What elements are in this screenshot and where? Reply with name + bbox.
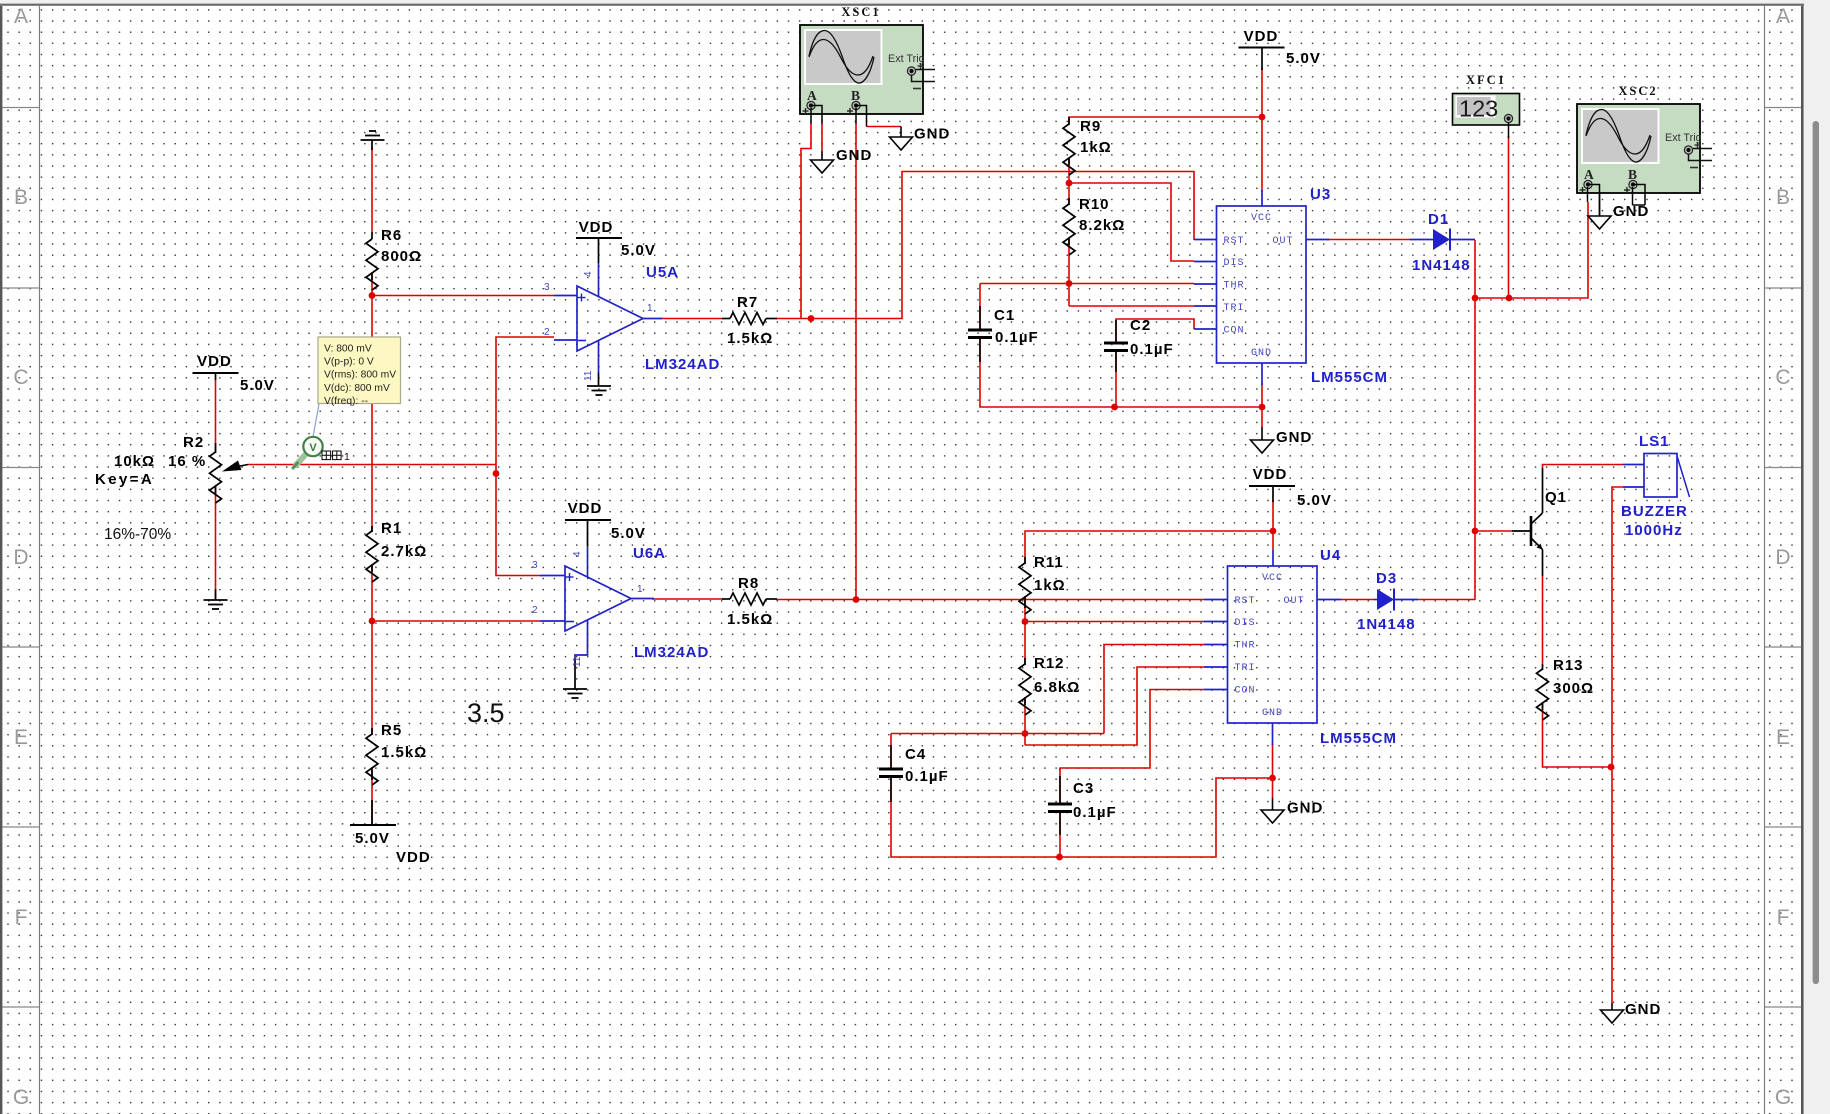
ground below U4 <box>1272 798 1274 810</box>
wire Q1 collector up to buzzer <box>1543 465 1624 469</box>
svg-text:V: 800 mV: V: 800 mV <box>324 344 372 355</box>
wire buzzer bottom terminal down to ground <box>1612 487 1623 1003</box>
svg-text:1N4148: 1N4148 <box>1357 616 1416 633</box>
svg-text:D: D <box>13 546 28 569</box>
resistor R12 <box>1024 658 1026 665</box>
svg-text:0.1µF: 0.1µF <box>1073 804 1117 821</box>
XSC2 terminal stubs <box>1587 187 1589 202</box>
wire node to Q1 base <box>1475 530 1512 532</box>
U3 pin stubs <box>1194 239 1217 241</box>
junction U3 GND node <box>1259 404 1266 411</box>
svg-text:B: B <box>1628 167 1637 182</box>
svg-text:V(dc): 800 mV: V(dc): 800 mV <box>324 383 390 394</box>
XFC1 terminal stub <box>1508 123 1510 138</box>
svg-text:U6A: U6A <box>633 545 666 562</box>
svg-text:R12: R12 <box>1034 655 1065 672</box>
op-amp U6A (LM324AD) <box>565 566 631 631</box>
svg-text:THR: THR <box>1224 281 1245 292</box>
capacitor C2 <box>1115 320 1117 343</box>
svg-text:16 %: 16 % <box>168 453 206 470</box>
wire C1 bottom to ground bus <box>980 337 1262 407</box>
svg-text:E: E <box>14 726 28 749</box>
svg-text:A: A <box>807 88 817 103</box>
power VDD above U4 <box>1249 485 1295 487</box>
svg-text:R9: R9 <box>1080 118 1101 135</box>
svg-text:2: 2 <box>544 327 550 338</box>
svg-text:GND: GND <box>1287 800 1323 817</box>
wire R12 bottom node <box>1024 697 1026 745</box>
svg-text:VDD: VDD <box>396 849 431 866</box>
potentiometer R2 <box>215 443 217 453</box>
svg-text:R8: R8 <box>738 575 759 592</box>
svg-text:16%-70%: 16%-70% <box>104 526 171 543</box>
probe leader line <box>313 404 319 437</box>
svg-text:R7: R7 <box>737 294 758 311</box>
svg-text:8.2kΩ: 8.2kΩ <box>1079 217 1125 234</box>
power VDD above R2 <box>193 372 239 374</box>
svg-text:R6: R6 <box>381 227 402 244</box>
svg-text:4: 4 <box>572 551 583 557</box>
wire D1 cathode down to Q1 base node and D3 <box>1474 240 1476 600</box>
power VDD above U3 <box>1239 47 1285 49</box>
svg-text:LM324AD: LM324AD <box>645 356 720 373</box>
junction VDD rail / U3 VCC <box>1259 114 1266 121</box>
junction R8 output / XSC1 B <box>853 596 860 603</box>
ground below buzzer/R13 <box>1611 1003 1613 1010</box>
svg-text:LM555CM: LM555CM <box>1320 730 1397 747</box>
capacitor C1 <box>979 306 981 330</box>
svg-text:V(rms): 800 mV: V(rms): 800 mV <box>324 370 396 381</box>
svg-text:RST: RST <box>1224 236 1245 247</box>
svg-text:5.0V: 5.0V <box>355 830 390 847</box>
svg-text:V(p-p): 0 V: V(p-p): 0 V <box>324 357 374 368</box>
svg-text:R1: R1 <box>381 520 402 537</box>
power VDD above U5A <box>576 237 622 239</box>
junction R9/R10/DIS <box>1066 180 1073 187</box>
junction U4 GND node <box>1269 775 1276 782</box>
svg-text:C4: C4 <box>905 746 926 763</box>
wire C4 top lead <box>890 734 892 770</box>
wire node to U3 THR and C1 <box>980 283 1194 285</box>
svg-text:E: E <box>1776 726 1790 749</box>
svg-text:B: B <box>1776 186 1790 209</box>
junction D1 node / XFC1-XSC2 tap <box>1472 295 1479 302</box>
buzzer LS1 <box>1644 454 1677 498</box>
resistor R10 <box>1068 198 1070 205</box>
svg-text:R2: R2 <box>183 434 204 451</box>
power VDD below R5 <box>350 824 396 826</box>
wire node to U6A inverting input <box>372 620 540 622</box>
svg-text:C1: C1 <box>994 307 1015 324</box>
wire U5A output to R7 <box>660 318 723 320</box>
resistor R9 <box>1068 117 1070 125</box>
svg-text:XFC1: XFC1 <box>1466 73 1506 87</box>
svg-text:0.1µF: 0.1µF <box>1130 341 1174 358</box>
diode D1 (1N4148) <box>1410 239 1433 241</box>
ground above R6 <box>371 140 373 150</box>
capacitor C4 <box>890 745 892 769</box>
svg-text:XSC1: XSC1 <box>841 5 880 19</box>
svg-text:GND: GND <box>1276 429 1312 446</box>
op-amp U5A (LM324AD) <box>577 286 643 351</box>
svg-text:DIS: DIS <box>1235 618 1256 629</box>
junction XFC1 wire <box>1506 295 1513 302</box>
resistor R7 <box>722 318 730 320</box>
junction R13 / buzzer return <box>1608 764 1615 771</box>
svg-text:VDD: VDD <box>579 219 614 236</box>
svg-text:V: V <box>309 442 317 454</box>
resistor R13 <box>1542 664 1544 670</box>
wire wiper to U5A inverting input and U6A non-inverting input <box>496 337 554 576</box>
wire C4 bottom to ground bus <box>891 776 1273 857</box>
svg-text:LM555CM: LM555CM <box>1311 369 1388 386</box>
resistor R11 <box>1024 557 1026 564</box>
svg-text:1: 1 <box>647 303 653 314</box>
svg-text:GND: GND <box>1251 348 1272 359</box>
wire R8 to U4 RST <box>776 599 1204 601</box>
svg-text:Key=A: Key=A <box>95 471 154 488</box>
wire node to U4 DIS <box>1025 621 1204 623</box>
svg-text:V(freq): --: V(freq): -- <box>324 396 368 407</box>
wire R2 wiper node <box>248 464 496 466</box>
wire U3 OUT to D1 <box>1327 239 1410 241</box>
svg-text:5.0V: 5.0V <box>240 377 275 394</box>
wire U3 GND pin to ground <box>1261 383 1263 427</box>
wire XSC1 channel B minus to ground <box>867 126 902 128</box>
wire R6 bottom to R1 top (node to U5A +) <box>371 272 373 532</box>
oscilloscope XSC2 <box>1577 104 1700 193</box>
svg-text:1kΩ: 1kΩ <box>1080 139 1112 156</box>
555 timer U4 (LM555CM) <box>1228 566 1318 723</box>
junction wiper node <box>493 470 500 477</box>
svg-text:VDD: VDD <box>197 353 232 370</box>
resistor R5 <box>371 728 373 735</box>
svg-text:3.5: 3.5 <box>467 698 505 728</box>
junction R7 output / XSC1 A <box>808 315 815 322</box>
svg-text:R11: R11 <box>1034 554 1064 571</box>
wire R13 bottom to node <box>1543 702 1612 767</box>
svg-text:D1: D1 <box>1428 211 1449 228</box>
svg-text:2.7kΩ: 2.7kΩ <box>381 543 427 560</box>
junction C2 bottom / ground bus <box>1111 404 1118 411</box>
svg-text:OUT: OUT <box>1273 236 1294 247</box>
wire C3 top to U4 CON <box>1060 690 1204 771</box>
svg-text:5.0V: 5.0V <box>1297 492 1332 509</box>
wire node to C4 top <box>891 733 1104 735</box>
555 timer U3 (LM555CM) <box>1217 206 1307 363</box>
wire R10 bottom node <box>1068 237 1070 306</box>
svg-text:2: 2 <box>532 605 538 616</box>
svg-text:Ext Trig: Ext Trig <box>1665 132 1702 144</box>
svg-text:VDD: VDD <box>1253 466 1288 483</box>
ground XSC2 A-minus <box>1599 188 1601 216</box>
svg-text:XSC2: XSC2 <box>1618 84 1657 98</box>
diode D3 (1N4148) <box>1374 599 1377 601</box>
wire R9 top to VDD rail <box>1069 117 1262 124</box>
wire C3 vertical leads <box>1059 768 1061 804</box>
svg-text:G: G <box>1775 1086 1791 1109</box>
junction Q1 base node <box>1472 528 1479 535</box>
wire node to U5A non-inverting input <box>372 295 554 297</box>
svg-text:GND: GND <box>914 126 950 143</box>
wire node to XSC2 channel A <box>1475 202 1588 298</box>
svg-text:1.5kΩ: 1.5kΩ <box>381 744 427 761</box>
transistor Q1 <box>1512 530 1531 532</box>
svg-text:11: 11 <box>583 370 594 381</box>
svg-text:GND: GND <box>1262 708 1283 719</box>
svg-text:THR: THR <box>1235 641 1256 652</box>
svg-text:D: D <box>1775 546 1790 569</box>
wire R11 bottom to U4 DIS row <box>1024 596 1026 665</box>
probe name 探针1 <box>322 451 341 460</box>
svg-text:5.0V: 5.0V <box>611 525 646 542</box>
svg-text:BUZZER: BUZZER <box>1621 503 1688 520</box>
junction R12/C4/THR riser <box>1022 730 1029 737</box>
wire D3 cathode to node <box>1418 599 1475 601</box>
svg-text:VCC: VCC <box>1251 213 1272 224</box>
svg-text:LS1: LS1 <box>1639 433 1670 450</box>
voltage probe 探针1 <box>296 455 305 465</box>
wire U4 OUT to D3 <box>1341 599 1374 601</box>
ground below U6A pin 11 <box>574 658 576 689</box>
svg-text:1kΩ: 1kΩ <box>1034 577 1066 594</box>
svg-text:A: A <box>14 5 28 28</box>
oscilloscope XSC1 <box>800 25 923 114</box>
svg-text:OUT: OUT <box>1284 596 1305 607</box>
wire U4 GND pin to ground <box>1272 743 1274 798</box>
junction C3 bottom / ground bus <box>1056 854 1063 861</box>
wire XSC1 channel A minus to ground <box>821 124 823 151</box>
wire VDD rail to U4 VCC and R11 <box>1025 531 1273 564</box>
svg-text:5.0V: 5.0V <box>1286 50 1321 67</box>
wire XSC1 channel A to node <box>801 124 811 319</box>
ground XSC1 B-minus <box>900 127 902 138</box>
svg-text:DIS: DIS <box>1224 258 1245 269</box>
svg-text:VDD: VDD <box>1244 28 1279 45</box>
svg-text:GND: GND <box>1625 1001 1661 1018</box>
wire node to U3 TRI <box>1069 305 1194 307</box>
svg-text:C3: C3 <box>1073 780 1094 797</box>
wire R5 bottom to VDD <box>371 767 373 824</box>
power VDD above U6A <box>565 519 611 521</box>
svg-text:C: C <box>1775 366 1790 389</box>
ground below U5A pin 11 <box>598 372 600 386</box>
wire XSC1 channel B to U6A output node <box>855 124 857 600</box>
resistor R8 <box>722 598 730 600</box>
junction R6/R1/U5A+ <box>369 292 376 299</box>
svg-text:3: 3 <box>532 560 538 571</box>
svg-text:1.5kΩ: 1.5kΩ <box>727 330 773 347</box>
wire U3 VCC to VDD <box>1261 68 1263 192</box>
wire XFC1 terminal down <box>1508 136 1510 298</box>
svg-text:800Ω: 800Ω <box>381 248 422 265</box>
svg-text:B: B <box>851 88 860 103</box>
svg-text:TRI: TRI <box>1235 663 1256 674</box>
svg-text:C: C <box>13 366 28 389</box>
junction R1/R5/U6A- <box>369 618 376 625</box>
wire R1 bottom to R5 top <box>371 564 373 735</box>
svg-text:F: F <box>1777 906 1790 929</box>
svg-text:A: A <box>1584 167 1594 182</box>
svg-text:5.0V: 5.0V <box>621 242 656 259</box>
wire R7 to U3 RST <box>776 172 1194 319</box>
ground below R2 <box>215 589 217 600</box>
svg-text:R13: R13 <box>1553 657 1584 674</box>
svg-text:1000Hz: 1000Hz <box>1625 522 1683 539</box>
svg-text:U3: U3 <box>1310 186 1331 203</box>
svg-text:U4: U4 <box>1320 547 1341 564</box>
svg-text:3: 3 <box>544 282 550 293</box>
junction VDD rail / U4 VCC <box>1270 528 1277 535</box>
wire Q1 emitter to R13 <box>1542 576 1544 666</box>
svg-text:VDD: VDD <box>568 500 603 517</box>
capacitor C3 <box>1059 776 1061 804</box>
svg-text:300Ω: 300Ω <box>1553 680 1594 697</box>
svg-text:0.1µF: 0.1µF <box>905 768 949 785</box>
junction R11/DIS row <box>1022 618 1029 625</box>
svg-text:D3: D3 <box>1376 570 1397 587</box>
svg-text:RST: RST <box>1235 596 1256 607</box>
svg-text:CON: CON <box>1224 326 1245 337</box>
svg-text:C2: C2 <box>1130 317 1151 334</box>
probe tooltip <box>318 337 401 404</box>
XSC1 terminal stubs <box>810 108 812 124</box>
svg-text:123: 123 <box>1459 96 1498 122</box>
svg-text:1N4148: 1N4148 <box>1412 257 1471 274</box>
svg-text:R5: R5 <box>381 722 402 739</box>
wire VDD to R2 top <box>215 378 217 452</box>
svg-text:Q1: Q1 <box>1545 489 1567 506</box>
svg-text:0.1µF: 0.1µF <box>995 329 1039 346</box>
svg-text:4: 4 <box>583 271 594 277</box>
svg-text:Ext Trig: Ext Trig <box>888 53 925 65</box>
wire C2 top to U3 CON <box>1116 319 1194 344</box>
wire node to U4 THR <box>1104 645 1204 734</box>
svg-text:1.5kΩ: 1.5kΩ <box>727 611 773 628</box>
svg-text:G: G <box>13 1086 29 1109</box>
svg-text:6.8kΩ: 6.8kΩ <box>1034 679 1080 696</box>
svg-text:A: A <box>1776 5 1790 28</box>
svg-text:U5A: U5A <box>646 264 679 281</box>
svg-text:GND: GND <box>836 147 872 164</box>
svg-text:B: B <box>14 186 28 209</box>
junction R10/THR <box>1066 280 1073 287</box>
resistor R1 <box>371 526 373 532</box>
resistor R6 <box>371 232 373 239</box>
wire node to U4 TRI <box>1025 667 1204 745</box>
svg-text:TRI: TRI <box>1224 303 1245 314</box>
ground XSC1 A-minus <box>821 151 823 160</box>
svg-text:11: 11 <box>572 656 583 667</box>
svg-text:1: 1 <box>637 584 643 595</box>
svg-text:R10: R10 <box>1079 196 1110 213</box>
wire ground to R6 top <box>371 147 373 232</box>
wire U6A output to R8 <box>652 598 723 600</box>
svg-text:VCC: VCC <box>1262 573 1283 584</box>
ground below U3 <box>1261 427 1263 440</box>
svg-text:CON: CON <box>1235 686 1256 697</box>
svg-text:LM324AD: LM324AD <box>634 644 709 661</box>
wire C1 top <box>979 284 981 331</box>
frequency counter XFC1 <box>1453 94 1520 126</box>
wire R2 bottom to ground <box>215 486 217 600</box>
svg-text:F: F <box>15 906 28 929</box>
svg-text:1: 1 <box>344 451 350 463</box>
wire C2 bottom <box>1115 349 1117 407</box>
wire node to U3 DIS <box>1069 183 1194 261</box>
svg-text:10kΩ: 10kΩ <box>114 453 155 470</box>
wire R9 bottom to R10 top <box>1068 158 1070 205</box>
U4 pin stubs <box>1204 599 1228 601</box>
